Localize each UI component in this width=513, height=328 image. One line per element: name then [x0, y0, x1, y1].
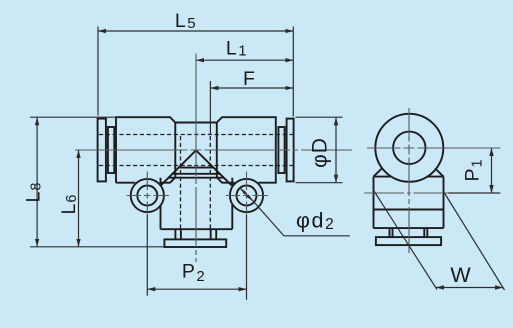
side block bottom	[374, 227, 444, 229]
branch centerline extension above (L1 extension)	[195, 54, 197, 123]
side horizontal centerline	[367, 147, 500, 149]
triangle mark left side	[161, 150, 196, 185]
hole circle left outer	[131, 179, 164, 212]
right release flange	[287, 119, 294, 182]
chamfer top-right of block	[217, 117, 276, 183]
triangle base	[179, 167, 214, 169]
hidden bore dashed lines front view	[99, 135, 293, 230]
left hole vertical crosshair	[146, 172, 148, 216]
left body bottom edge	[116, 182, 135, 184]
W left diagonal extension	[374, 191, 437, 290]
boss left vertical	[160, 178, 162, 230]
hole circle right outer	[230, 179, 263, 212]
P1 lower extension	[448, 192, 500, 194]
triangle mark right side	[196, 150, 231, 185]
phiD bottom extension	[296, 182, 343, 184]
L8 top extension	[30, 116, 116, 118]
L5 dimension line	[98, 30, 293, 32]
bore hidden line bottom	[99, 165, 293, 167]
stem neck	[175, 229, 216, 239]
P2 right extension	[246, 215, 248, 300]
P2 dimension line	[147, 288, 246, 290]
left release flange	[98, 119, 106, 182]
right hole vertical crosshair	[246, 172, 248, 216]
svg-text:φD: φD	[309, 137, 332, 168]
right collar step	[278, 127, 284, 173]
L8 dimension line	[36, 117, 38, 247]
stem flange	[164, 239, 226, 247]
boss right vertical	[231, 178, 233, 230]
left body bottom edge segment near boss	[159, 178, 175, 183]
side shoulder chamfer right	[435, 169, 443, 177]
side block top edge right part	[427, 176, 444, 178]
phid2 leader tail	[254, 202, 350, 236]
centerlines front view	[75, 54, 352, 263]
P1 lower level centerline	[364, 192, 448, 194]
side inner circle	[393, 132, 425, 164]
W dimension line	[436, 287, 503, 289]
bore hidden line top	[99, 134, 293, 136]
side shoulder chamfer left	[374, 169, 382, 177]
phiD top extension	[296, 116, 343, 118]
P2 left extension	[146, 215, 148, 296]
dimension lines and extension lines	[30, 27, 350, 300]
branch bore hidden right	[209, 136, 211, 229]
block lower line 2 (boss top)	[169, 177, 224, 179]
side block left edge	[373, 177, 375, 229]
horizontal axis centerline	[75, 149, 352, 151]
hole circle right inner	[237, 186, 257, 206]
right hole horizontal crosshair	[226, 195, 268, 197]
side view centerlines	[364, 108, 500, 253]
right end extension (L5/L1/F)	[292, 27, 294, 117]
branch bore hidden left	[180, 136, 182, 229]
branch vertical centerline	[195, 123, 197, 263]
block lower line 1	[172, 173, 219, 175]
left body cylinder	[116, 117, 175, 183]
svg-text:W: W	[450, 263, 471, 287]
hole circle left inner	[137, 186, 157, 206]
side block right edge	[443, 177, 445, 229]
L5 left extension	[97, 27, 99, 116]
svg-text:F: F	[243, 68, 255, 90]
center block	[175, 123, 217, 178]
boss bottom edge	[161, 228, 233, 230]
left collar step	[108, 127, 114, 173]
F extension	[209, 81, 211, 135]
side block top edge left part	[374, 176, 392, 178]
left hole horizontal crosshair	[127, 195, 170, 197]
W right diagonal extension	[444, 192, 505, 291]
side stem flange	[376, 237, 441, 245]
side block mid line	[374, 209, 444, 211]
phid2 leader with diameter arrows	[239, 187, 253, 201]
side stem neck	[390, 228, 428, 237]
side vertical centerline	[408, 108, 410, 253]
L6 dimension line	[78, 150, 80, 247]
F dimension line	[210, 87, 293, 89]
P1 dimension line	[491, 148, 493, 193]
L8 bottom extension	[30, 246, 164, 248]
side outer circle	[375, 114, 443, 182]
L1 dimension line	[196, 59, 293, 61]
right body bottom edge segment near boss	[217, 178, 235, 183]
phiD dimension line	[335, 117, 337, 183]
